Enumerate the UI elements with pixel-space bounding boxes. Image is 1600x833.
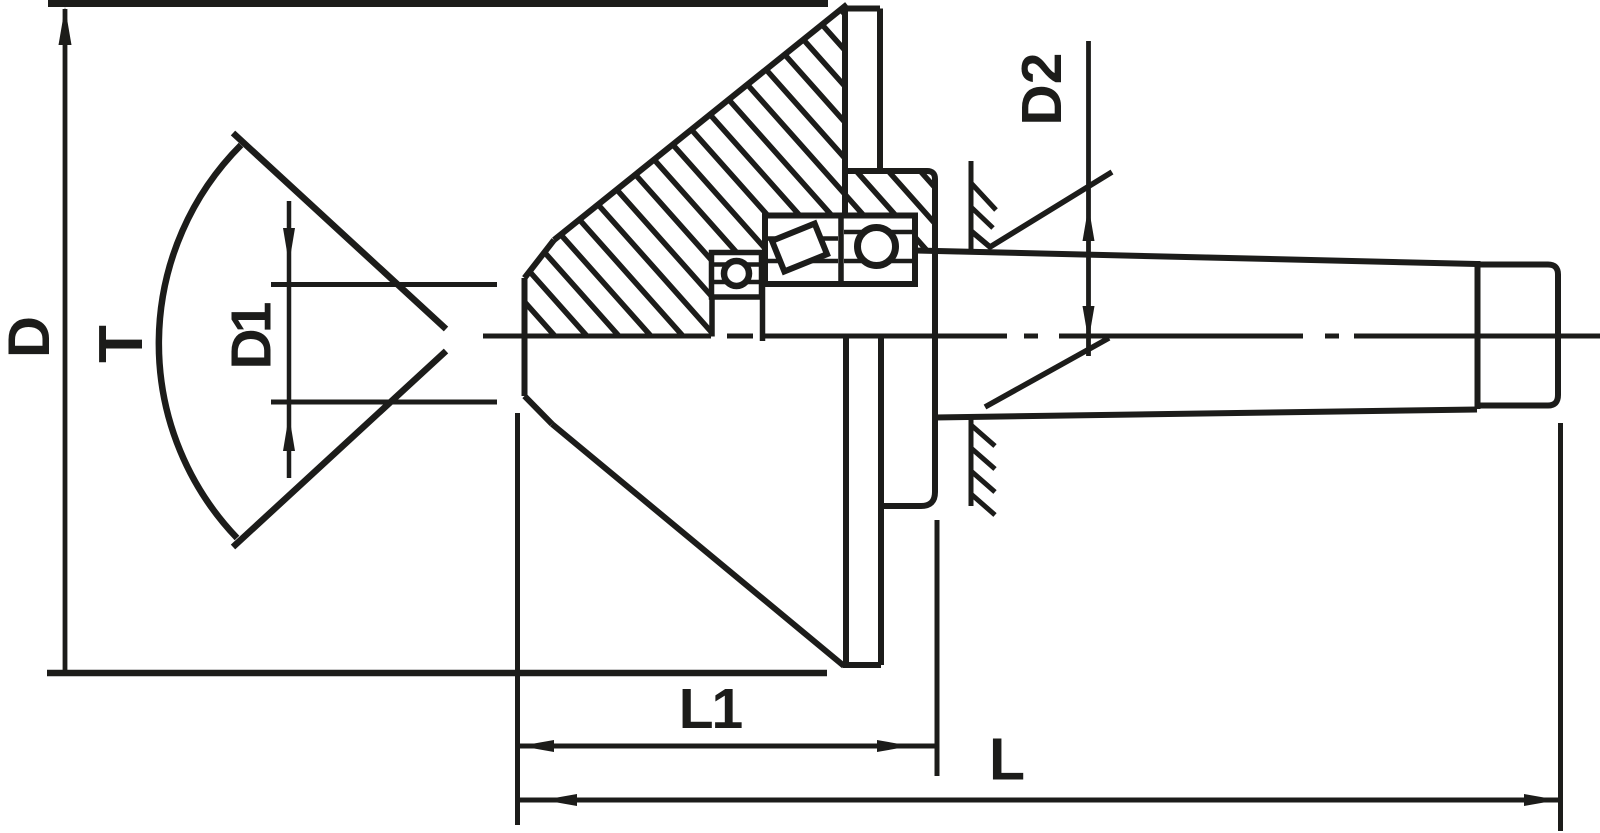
arrowhead L right (1524, 794, 1558, 806)
flange bottom edge (843, 662, 881, 668)
arrowhead L left (543, 794, 577, 806)
large bearing ball (858, 228, 896, 266)
tapered roller (772, 224, 827, 272)
housing top edge (843, 171, 935, 506)
pipe end arc (workpiece sector) (159, 145, 241, 538)
extension line top (diameter D upper reference) (48, 0, 828, 7)
shaft top edge (916, 251, 1477, 265)
dimension line L1 (518, 744, 937, 749)
dimension line D (63, 9, 68, 671)
arrowhead D top (59, 7, 72, 45)
support surface lower (969, 418, 974, 506)
tang outline (1478, 265, 1558, 406)
svg-text:L: L (989, 727, 1025, 793)
extension line D1 lower (271, 400, 497, 405)
small bearing ball (724, 261, 749, 286)
arrowhead L1 right (877, 740, 911, 752)
large bearing race lines right cell (844, 232, 912, 261)
cone tip chamfer lower (525, 396, 553, 424)
flange right edge upper (877, 9, 883, 172)
cone surface lower (552, 424, 844, 666)
arrowhead D2 down (1083, 306, 1095, 341)
washer front face line (760, 284, 766, 341)
small bearing left edge extension (709, 297, 715, 337)
flange left edge lower (843, 338, 849, 665)
shaft bottom edge (935, 410, 1477, 418)
pipe chamfer upper edge (233, 133, 446, 329)
small bearing race lines (714, 265, 759, 283)
cone surface upper (554, 5, 847, 241)
dimension line D1 (287, 201, 292, 478)
support hatch ticks lower (971, 425, 995, 515)
pipe chamfer lower edge (233, 351, 446, 547)
dimension line D2 (1086, 41, 1091, 356)
extension line bottom (diameter D lower reference) (47, 670, 827, 677)
support surface upper (969, 161, 974, 250)
large bearing box (765, 216, 915, 285)
centerline (axis) (483, 334, 1600, 339)
arrowhead L1 left (520, 740, 554, 752)
tang step line (1475, 261, 1481, 409)
large bearing race lines left cell (768, 239, 838, 262)
svg-text:D: D (0, 316, 62, 358)
extension line D1 upper (271, 282, 497, 287)
svg-text:T: T (87, 325, 156, 363)
arrowhead D1 up (283, 415, 295, 451)
extension line L left (515, 413, 520, 825)
flange top edge (842, 6, 880, 12)
workpiece upper contact edge (971, 172, 1112, 247)
cone front face (522, 278, 528, 396)
extension line L1 right (935, 520, 940, 776)
dimension line L (518, 798, 1561, 803)
svg-text:D2: D2 (1010, 53, 1074, 126)
svg-text:D1: D1 (220, 302, 284, 369)
flange right edge lower (878, 338, 884, 665)
arrowhead D1 down (283, 228, 295, 264)
cone tip chamfer upper (525, 240, 555, 278)
small ball bearing box (712, 253, 762, 298)
large bearing divider (838, 216, 844, 285)
workpiece lower contact edge (985, 338, 1109, 407)
arrowhead D2 up (1083, 206, 1095, 241)
support hatch ticks upper (971, 183, 996, 228)
extension line L right (1558, 423, 1563, 831)
svg-text:L1: L1 (679, 677, 743, 741)
section hatching of cone body and housing (247, 0, 1139, 345)
flange left edge upper (842, 8, 848, 216)
